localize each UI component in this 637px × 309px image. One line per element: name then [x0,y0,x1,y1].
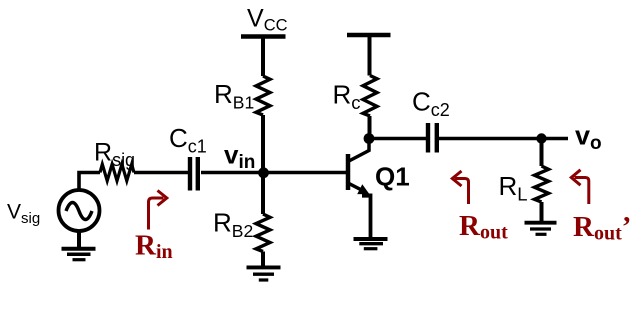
ground below RL [525,223,557,235]
resistor Rc [363,76,377,117]
ground below RB2 [247,267,281,280]
svg-text:Vsig: Vsig [7,201,40,228]
capacitor Cc1 [190,157,198,191]
wire vin to RB2 [261,173,265,215]
svg-text:Cc1: Cc1 [169,123,207,157]
arrow Rout_prime [571,170,589,204]
svg-text:VCC: VCC [247,5,288,35]
node vo [536,133,546,143]
wire Rc to collector node [368,116,372,139]
source Vsig [59,190,100,231]
node collector [364,133,375,144]
ground below Q1 emitter [354,239,388,249]
svg-text:vo: vo [575,121,602,155]
power bar above Rc [347,33,391,38]
power VCC bar [241,34,286,39]
wire Vsig to Rsig [79,173,100,191]
wire RB1 to node vin [261,115,265,173]
resistor RL [535,166,549,202]
svg-text:RB2: RB2 [213,208,253,242]
arrow Rout [452,171,468,204]
wire collector node to Cc2 [369,137,426,140]
node vin [258,167,269,178]
svg-text:Rsig: Rsig [94,139,135,171]
svg-text:Rc: Rc [333,80,361,114]
svg-text:RL: RL [499,171,528,205]
wire RB2 to ground [261,252,265,266]
wire VCC to RB1 [261,37,265,77]
wire Rsig to Cc1 [134,171,188,174]
resistor RB2 [256,214,270,252]
wire Cc1 to base of Q1 [201,171,346,174]
wire Vsig circle to ground [77,231,81,248]
svg-text:RB1: RB1 [214,79,254,113]
svg-text:Rin: Rin [135,230,173,264]
resistor Rsig [100,164,134,181]
wire vo node to RL [540,139,544,167]
svg-text:Cc2: Cc2 [412,87,450,121]
capacitor Cc2 [428,123,437,153]
wire power bar to Rc [368,35,372,76]
arrow Rin [149,191,167,230]
wire RL to ground [540,202,544,221]
wire Cc2 to node vo [439,137,568,140]
svg-text:vin: vin [224,140,255,174]
svg-text:Q1: Q1 [375,162,410,192]
resistor RB1 [256,76,270,115]
svg-text:Rout’: Rout’ [573,211,631,245]
transistor Q1 [348,139,371,240]
svg-text:Rout: Rout [459,210,508,244]
ground below Vsig [62,249,96,260]
